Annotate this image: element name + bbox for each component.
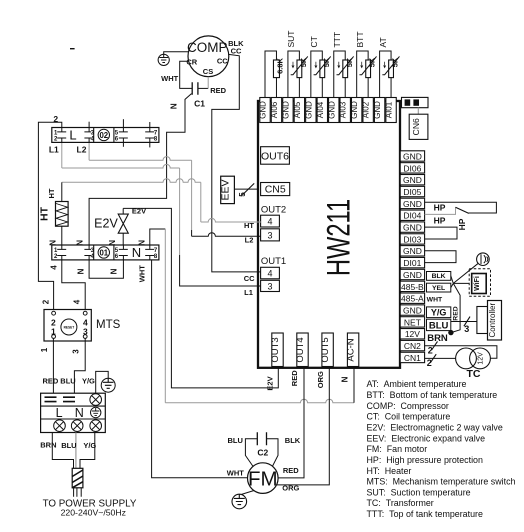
fan motor FM	[247, 463, 278, 494]
thermistor BTT 5K	[359, 56, 376, 77]
wire net L1 : relay 02 pin 2 to OUT1 pin 3	[61, 142, 63, 168]
wire MTS pin 1 to mains block (RED)	[52, 338, 54, 393]
connector OUT2 pin 4	[261, 215, 280, 227]
wire net L2 : relay 02 pin 4 to OUT2 pin 3	[88, 142, 90, 160]
bundle slash 2 (CN1)	[430, 354, 436, 363]
terminal GND (right strip row 11)	[400, 269, 424, 280]
antenna symbol	[477, 253, 490, 266]
block screw terminal row1	[90, 394, 102, 406]
svg-text:GND: GND	[259, 101, 268, 119]
transformer TC	[456, 348, 491, 369]
wire C2 BLU to fan motor	[245, 439, 257, 467]
svg-text:WHT: WHT	[427, 296, 443, 303]
wire CS to C1 (RED)	[198, 87, 208, 89]
svg-text:GND: GND	[403, 305, 422, 315]
svg-text:2: 2	[427, 358, 432, 368]
svg-text:N: N	[108, 240, 117, 246]
svg-text:CN2: CN2	[404, 341, 421, 351]
relay 02 stub pin 5	[122, 119, 124, 127]
wire heater top to HT net	[61, 182, 63, 201]
svg-text:N: N	[170, 103, 179, 109]
svg-text:YEL: YEL	[432, 285, 445, 292]
svg-text:OUT3: OUT3	[270, 337, 281, 362]
HP switch blade	[456, 207, 469, 213]
svg-text:GND: GND	[403, 151, 422, 161]
svg-text:Y/G: Y/G	[83, 441, 96, 450]
svg-text:RED: RED	[42, 376, 58, 385]
svg-text:RED: RED	[210, 86, 226, 95]
svg-text:DI06: DI06	[403, 163, 421, 173]
svg-text:WHT: WHT	[227, 468, 244, 477]
svg-text:3: 3	[267, 282, 272, 292]
svg-text:E2V: E2V	[266, 376, 275, 390]
svg-text:2: 2	[42, 299, 51, 304]
svg-text:C1: C1	[194, 98, 205, 108]
svg-text:6.8K: 6.8K	[276, 57, 285, 73]
svg-text:Controller: Controller	[488, 303, 497, 338]
sensor loop AT wire	[380, 51, 391, 98]
svg-text:SUT: SUT	[286, 31, 296, 48]
svg-text:2: 2	[53, 114, 58, 124]
svg-text:NET: NET	[404, 317, 421, 327]
svg-text:RED: RED	[453, 306, 460, 320]
terminal AI01 (top strip pin 12)	[385, 98, 397, 123]
wire heater bottom to relay 01 pin 1	[61, 226, 63, 245]
wire CN6 to connector J1	[417, 108, 419, 115]
svg-text:Y/G: Y/G	[82, 376, 95, 385]
svg-text:OUT5: OUT5	[320, 337, 331, 362]
terminal AI03 (top strip pin 8)	[339, 98, 351, 123]
wire tag BLU	[427, 319, 451, 332]
terminal AI05 (top strip pin 4)	[293, 98, 305, 123]
svg-text:5K: 5K	[368, 57, 377, 67]
sensor loop CT wire	[311, 51, 322, 98]
terminal 485-B (right strip row 12)	[400, 281, 424, 292]
svg-text:GND: GND	[403, 175, 422, 185]
terminal GND (right strip row 5)	[400, 198, 424, 209]
svg-text:L1: L1	[244, 288, 253, 297]
connector OUT1 pin 3	[261, 280, 280, 291]
svg-text:E2V: E2V	[94, 216, 118, 230]
svg-text:AI06: AI06	[270, 101, 279, 118]
svg-text:AI05: AI05	[293, 101, 302, 118]
svg-text:AT: AT	[378, 37, 388, 47]
wire CN1 to transformer	[425, 357, 456, 359]
svg-text:BLK: BLK	[285, 436, 301, 445]
sensor loop TTT wire	[334, 51, 345, 98]
terminal AI02 (top strip pin 10)	[362, 98, 374, 123]
svg-text:RED: RED	[283, 466, 299, 475]
terminal GND (right strip row 9)	[400, 246, 424, 257]
svg-text:SUT: Suction temperature: SUT: Suction temperature	[367, 487, 471, 497]
wire C2 BLK to fan motor	[267, 439, 279, 467]
svg-text:02: 02	[99, 131, 108, 140]
svg-text:WHT: WHT	[161, 74, 178, 83]
svg-text:L: L	[69, 128, 76, 143]
ground symbol (compressor)	[158, 52, 188, 66]
terminal GND (right strip row 14)	[400, 305, 424, 316]
svg-text:485-A: 485-A	[401, 294, 424, 304]
terminal GND (top strip pin 9)	[350, 98, 362, 123]
svg-text:OUT1: OUT1	[261, 256, 286, 267]
sensor loop R-6.8K wire	[265, 51, 276, 98]
svg-text:12V: 12V	[405, 329, 420, 339]
terminal DI03 (right strip row 8)	[400, 234, 424, 245]
svg-text:GND: GND	[403, 199, 422, 209]
junction dot (12V/BRN)	[448, 330, 453, 335]
svg-text:TTT: Top of tank temperature: TTT: Top of tank temperature	[367, 509, 483, 519]
terminal OUT3 (bottom strip)	[270, 333, 283, 367]
svg-text:3: 3	[72, 349, 81, 354]
compressor COMP	[187, 36, 229, 77]
terminal GND (top strip pin 3)	[281, 98, 293, 123]
electronic expansion valve EEV	[219, 176, 234, 203]
svg-text:COMP: COMP	[187, 40, 228, 55]
svg-text:E2V: Electromagnetic 2 way va: E2V: Electromagnetic 2 way valve	[367, 423, 503, 433]
ground symbol (power inlet)	[101, 378, 115, 392]
wire Y/G block to cable	[80, 433, 95, 469]
svg-text:HW211: HW211	[321, 199, 358, 276]
terminal GND (top strip pin 7)	[327, 98, 339, 123]
svg-text:N: N	[137, 240, 146, 246]
svg-text:ORG: ORG	[282, 483, 299, 492]
relay 01 pins 4-6 link wire	[89, 260, 123, 278]
svg-text:HP: HP	[434, 202, 446, 212]
heater HT	[56, 202, 69, 227]
svg-text:5K: 5K	[345, 57, 354, 67]
svg-text:N: N	[110, 268, 119, 274]
wire net RED : OUT4 to fan motor	[278, 368, 304, 478]
thermistor CT 5K	[314, 56, 331, 77]
wire NET/3-core to controller	[451, 321, 477, 323]
svg-text:3: 3	[464, 324, 469, 334]
svg-text:01: 01	[99, 248, 108, 257]
svg-text:RESET: RESET	[64, 325, 75, 329]
svg-text:220-240V~/50Hz: 220-240V~/50Hz	[61, 507, 126, 517]
svg-text:5K: 5K	[391, 57, 400, 67]
ground symbol (fan motor)	[232, 494, 247, 509]
terminal 12V (right strip row 16)	[400, 329, 424, 340]
svg-text:ORG: ORG	[316, 371, 325, 388]
wire net 2 : relay 02 pin 1 to MTS pin 2	[38, 122, 61, 311]
wire BRN block to cable	[52, 433, 73, 469]
wire net 4 : relay 01 pin 2 to MTS pin 4	[62, 260, 85, 311]
relay 02 stub pin 7	[149, 122, 151, 128]
svg-text:DI01: DI01	[403, 258, 421, 268]
terminal GND (top strip pin 5)	[304, 98, 316, 123]
svg-text:N: N	[132, 245, 141, 260]
svg-text:AI01: AI01	[385, 101, 394, 118]
svg-text:AI02: AI02	[362, 101, 371, 118]
svg-text:1: 1	[40, 347, 49, 352]
svg-text:GND: GND	[403, 246, 422, 256]
connector OUT6	[261, 147, 290, 165]
svg-text:DI04: DI04	[403, 211, 421, 221]
svg-text:4: 4	[73, 299, 82, 304]
block row1 link bars	[45, 397, 76, 401]
svg-text:GND: GND	[327, 101, 336, 119]
bundle slash 2 (CN2)	[432, 341, 438, 350]
label HW211	[321, 199, 358, 276]
svg-text:L2: L2	[77, 145, 87, 155]
svg-text:TC: TC	[467, 368, 481, 380]
svg-text:L: L	[56, 406, 63, 420]
wire loop GND-DI03	[425, 227, 457, 239]
svg-text:12V: 12V	[478, 352, 485, 365]
terminal DI06 (right strip row 2)	[400, 163, 424, 174]
svg-text:WiFi: WiFi	[474, 276, 481, 291]
svg-text:BLK: BLK	[432, 273, 446, 280]
svg-text:BLU: BLU	[429, 321, 449, 332]
svg-text:OUT4: OUT4	[295, 337, 306, 362]
svg-text:CT: Coil temperature: CT: Coil temperature	[367, 412, 451, 422]
svg-text:BTT: Bottom of tank temperatu: BTT: Bottom of tank temperature	[367, 390, 498, 400]
svg-text:COMP: Compressor: COMP: Compressor	[367, 401, 449, 411]
svg-text:AI03: AI03	[339, 101, 348, 118]
svg-text:5: 5	[238, 192, 247, 197]
svg-text:HT: HT	[244, 221, 254, 230]
svg-text:5K: 5K	[322, 57, 331, 67]
svg-text:BLU: BLU	[61, 441, 76, 450]
svg-text:MTS: Mechanism temperature sw: MTS: Mechanism temperature switch	[367, 477, 516, 487]
relay 02 stub pin 8	[149, 142, 151, 147]
earth wire from block to PE symbol	[96, 371, 109, 393]
terminal AI04 (top strip pin 6)	[316, 98, 328, 123]
sensor loop BTT wire	[357, 51, 368, 98]
bundle slash 3	[464, 317, 470, 327]
svg-text:CN1: CN1	[404, 353, 421, 363]
svg-text:N: N	[76, 268, 85, 274]
svg-text:GND: GND	[403, 270, 422, 280]
wire DI04 to HP switch (grey)	[425, 207, 456, 214]
svg-text:CC: CC	[244, 274, 255, 283]
controller board HW211 outline	[258, 101, 400, 368]
terminal NET (right strip row 15)	[400, 317, 424, 328]
svg-text:485-B: 485-B	[401, 282, 424, 292]
svg-text:4: 4	[267, 269, 272, 279]
svg-text:CN6: CN6	[411, 118, 421, 135]
svg-text:CC: CC	[217, 57, 228, 66]
svg-text:GND: GND	[403, 223, 422, 233]
terminal CN1 (right strip row 18)	[400, 352, 424, 363]
svg-text:1: 1	[51, 327, 56, 337]
svg-text:DI05: DI05	[403, 187, 421, 197]
svg-text:5K: 5K	[299, 57, 308, 67]
mains terminal block	[41, 393, 106, 432]
svg-text:GND: GND	[373, 101, 382, 119]
svg-text:CC: CC	[231, 47, 242, 56]
svg-text:FM: Fan motor: FM: Fan motor	[367, 444, 428, 454]
valve E2V (2-way electromagnetic)	[118, 208, 128, 245]
wire BLU block to cable	[75, 433, 77, 469]
wire CC : COMP to OUT1 pin 4	[212, 54, 261, 272]
svg-text:4: 4	[49, 265, 58, 270]
svg-text:HT: HT	[47, 188, 56, 198]
svg-text:TTT: TTT	[332, 32, 342, 48]
terminal GND (right strip row 7)	[400, 222, 424, 233]
svg-text:N: N	[49, 240, 58, 246]
svg-text:CR: CR	[186, 58, 197, 67]
wire net HT : heater to OUT2 pin 4	[62, 179, 201, 183]
svg-text:BRN: BRN	[40, 440, 56, 449]
terminal DI04 (right strip row 6)	[400, 210, 424, 221]
wire GND to HP switch	[425, 202, 497, 213]
terminal GND (top strip pin 1)	[259, 98, 271, 123]
svg-text:3: 3	[83, 327, 88, 337]
svg-text:OUT2: OUT2	[261, 205, 286, 216]
svg-text:EEV: Electronic expand valve: EEV: Electronic expand valve	[367, 433, 486, 443]
terminal DI01 (right strip row 10)	[400, 257, 424, 268]
wire net E2V : OUT3 to valve E2V	[123, 208, 278, 388]
svg-text:C2: C2	[257, 448, 268, 458]
svg-text:HT: Heater: HT: Heater	[367, 466, 412, 476]
svg-text:HT: HT	[39, 206, 51, 221]
terminal OUT4 (bottom strip)	[295, 333, 308, 367]
terminal AI06 (top strip pin 2)	[270, 98, 282, 123]
svg-text:BTT: BTT	[355, 31, 365, 47]
svg-text:RED: RED	[290, 370, 299, 386]
PE terminal symbol	[91, 407, 101, 417]
block screw terminals row3	[54, 420, 102, 432]
terminal GND (right strip row 3)	[400, 175, 424, 186]
wifi module WIFI	[469, 269, 490, 297]
thermistor AT 5K	[382, 56, 399, 77]
terminal AC-N (bottom strip)	[346, 333, 359, 367]
cable tails	[74, 488, 82, 497]
svg-text:N: N	[341, 376, 350, 382]
terminal OUT5 (bottom strip)	[320, 333, 333, 367]
relay 02 stub pin 6	[122, 142, 124, 146]
thermistor SUT 5K	[291, 56, 308, 77]
connector J1 (2-pin, top right)	[402, 97, 429, 107]
capacitor C2	[257, 432, 266, 445]
legend	[367, 379, 516, 519]
relay 02 (L)	[52, 128, 159, 143]
sensor loop SUT wire	[288, 51, 299, 98]
relay 01 (N)	[52, 245, 159, 260]
terminal GND (right strip row 1)	[400, 151, 424, 162]
svg-text:GND: GND	[281, 101, 290, 119]
svg-text:BLU: BLU	[227, 436, 242, 445]
terminal 485-A (right strip row 13)	[400, 293, 424, 304]
svg-text:HP: High pressure protection: HP: High pressure protection	[367, 455, 483, 465]
svg-text:WHT: WHT	[138, 265, 147, 282]
wire net N-A : C1/CR to relay 01 pin 3	[89, 94, 191, 245]
stray dash mark	[70, 48, 75, 50]
relay 02 stub pin 3	[88, 122, 90, 128]
svg-text:2: 2	[428, 345, 433, 355]
wire net WHT : relay 01 pin 8 to fan motor	[152, 260, 248, 478]
wire CR/WHT : COMP to capacitor C1	[180, 61, 192, 88]
svg-text:BRN: BRN	[427, 333, 448, 344]
wire tag BLK (485 bus)	[427, 272, 451, 281]
resistor R 6.8K	[273, 60, 279, 78]
connector CN5	[261, 183, 290, 196]
svg-text:Y/G: Y/G	[431, 308, 447, 318]
svg-text:EEV: EEV	[219, 179, 231, 200]
wire loop GND-DI01	[425, 251, 456, 263]
svg-text:HP: HP	[457, 218, 467, 230]
svg-text:GND: GND	[304, 101, 313, 119]
svg-text:AT: Ambient temperature: AT: Ambient temperature	[367, 379, 467, 389]
terminal DI05 (right strip row 4)	[400, 186, 424, 197]
wire CN5 to EEV (5 conductors)	[234, 188, 258, 190]
wire net N-B : relay 01 pin 7 to AC-N	[150, 229, 166, 245]
terminal GND (top strip pin 11)	[373, 98, 385, 123]
svg-text:BLU: BLU	[60, 376, 75, 385]
bundle slash 5	[241, 183, 254, 196]
svg-text:L2: L2	[245, 235, 254, 244]
wire tag YEL	[427, 283, 451, 292]
svg-text:DI03: DI03	[403, 234, 421, 244]
svg-text:N: N	[75, 406, 84, 420]
wire tag Y/G	[427, 307, 451, 318]
wire FM to ground	[241, 491, 254, 495]
connector CN6	[409, 114, 428, 139]
svg-text:GND: GND	[350, 101, 359, 119]
capacitor C1	[192, 82, 198, 94]
svg-text:CT: CT	[309, 36, 319, 47]
mechanism temperature switch MTS	[44, 310, 91, 342]
wifi junction wires	[451, 263, 479, 332]
svg-text:AI04: AI04	[316, 101, 325, 118]
svg-text:AC-N: AC-N	[346, 338, 357, 361]
connector OUT1 pin 4	[261, 267, 280, 279]
svg-text:OUT6: OUT6	[261, 151, 289, 163]
wire MTS pin 3 to mains block (BLU)	[74, 338, 85, 393]
svg-text:3: 3	[267, 230, 272, 240]
svg-text:HP: HP	[434, 215, 446, 225]
controller connector	[477, 307, 488, 334]
svg-text:4: 4	[267, 217, 272, 227]
terminal CN2 (right strip row 17)	[400, 340, 424, 351]
wire CN2 to transformer	[425, 346, 497, 359]
thermistor TTT 5K	[337, 56, 354, 77]
svg-text:TC: Transformer: TC: Transformer	[367, 498, 434, 508]
svg-text:MTS: MTS	[96, 319, 121, 331]
svg-text:N: N	[75, 240, 84, 246]
power cable (sheathed)	[72, 468, 83, 488]
wired controller	[488, 301, 502, 341]
connector OUT2 pin 3	[261, 229, 280, 241]
svg-text:L1: L1	[49, 145, 59, 155]
svg-text:E2V: E2V	[132, 206, 146, 215]
wire net ORG : OUT5 to fan motor	[276, 368, 329, 485]
svg-text:CS: CS	[203, 67, 213, 76]
svg-text:FM: FM	[248, 468, 278, 491]
svg-text:CN5: CN5	[265, 184, 286, 196]
